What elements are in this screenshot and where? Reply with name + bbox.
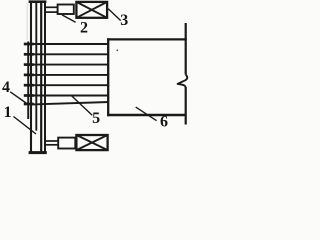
svg-text:1: 1	[4, 104, 12, 121]
coupling box 2 (top)	[58, 5, 74, 15]
bottom cap bar of left frame	[29, 151, 47, 154]
leader line for label 4	[10, 92, 27, 104]
motor X-box 3 (top) diagonal a	[76, 2, 107, 18]
leader line for label 6	[136, 107, 157, 121]
leader line for label 5	[72, 96, 93, 116]
middle tie rod 1	[35, 2, 37, 131]
bottom shaft upper line	[46, 140, 59, 142]
tick 6 on rail	[24, 94, 34, 97]
top shaft lower line	[46, 11, 57, 13]
left rail line A (ticked tube sheet, outer)	[27, 42, 29, 120]
tick 3 on rail	[24, 63, 34, 66]
tube 3	[33, 64, 110, 66]
tube 7	[33, 102, 110, 104]
coupling box (bottom)	[58, 138, 75, 149]
tube 6	[33, 95, 110, 97]
svg-text:4: 4	[2, 79, 10, 96]
tube 1	[33, 43, 110, 45]
top shaft upper line	[46, 6, 57, 8]
motor X-box (bottom) frame	[76, 135, 107, 150]
faint scan ghost line	[26, 3, 28, 40]
tick 1 on rail	[24, 43, 34, 46]
motor X-box 3 (top) frame	[76, 2, 107, 18]
vessel 6 top edge	[107, 38, 187, 40]
scan speck	[116, 49, 118, 51]
top cap bar of left frame	[29, 0, 47, 3]
plate 1 right line	[44, 2, 46, 152]
motor X-box (bottom) diagonal b	[76, 135, 107, 150]
svg-text:5: 5	[92, 110, 100, 127]
left rail line B (ticked tube sheet, inner)	[30, 2, 32, 152]
tube 5	[33, 84, 110, 86]
svg-text:3: 3	[120, 12, 128, 29]
tick 4 on rail	[24, 74, 34, 77]
plate 1 left line	[40, 2, 42, 152]
tick 7 on rail	[24, 103, 34, 106]
motor X-box 3 (top) diagonal b	[76, 2, 107, 18]
svg-text:2: 2	[80, 19, 88, 36]
svg-text:6: 6	[160, 113, 168, 130]
leader line for label 1	[14, 117, 37, 135]
bottom shaft lower line	[46, 144, 59, 146]
vessel 6 right edge upper part	[185, 23, 187, 75]
tube 4	[33, 74, 110, 76]
leader line for label 2	[62, 15, 76, 22]
tube 2	[33, 53, 110, 55]
vessel 6 right edge lower part	[185, 87, 187, 125]
motor X-box (bottom) diagonal a	[76, 135, 107, 150]
vessel 6 right edge break zigzag	[178, 75, 188, 88]
tick 5 on rail	[24, 84, 34, 87]
tick 2 on rail	[24, 53, 34, 56]
vessel 6 left edge	[107, 38, 109, 116]
leader line for label 3	[108, 9, 121, 21]
vessel 6 bottom edge	[107, 114, 186, 116]
